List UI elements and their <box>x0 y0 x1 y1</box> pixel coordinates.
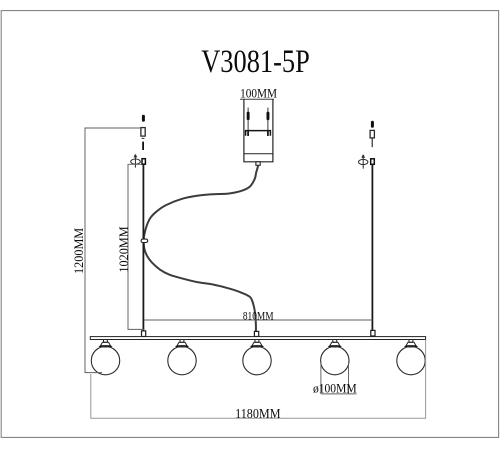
dimension 1180MM lines <box>91 340 426 419</box>
svg-text:1200MM: 1200MM <box>72 228 86 274</box>
right cord grip <box>371 159 375 165</box>
svg-text:ø100MM: ø100MM <box>313 381 357 395</box>
left cord grip <box>142 159 145 165</box>
dimension 1200MM label <box>72 228 86 274</box>
right hanger socket rect <box>370 130 374 138</box>
canopy screw left tip <box>247 131 249 136</box>
canopy cord nub <box>256 162 260 166</box>
dimension 1200MM line <box>85 128 141 373</box>
svg-text:1020MM: 1020MM <box>117 226 131 272</box>
globe 1 <box>91 340 119 375</box>
canopy screw right body <box>267 112 270 121</box>
dimension 810MM line <box>144 319 372 321</box>
cord clip bead on rod <box>141 239 148 242</box>
canopy plate line <box>244 153 273 155</box>
canopy screw left shaft <box>247 108 249 136</box>
left hanger ceiling stud <box>142 115 145 122</box>
canopy screw right shaft <box>267 108 269 136</box>
right rod foot <box>371 330 375 336</box>
left adjuster screw ellipse <box>131 159 141 164</box>
globe 4 <box>321 340 349 375</box>
svg-text:1180MM: 1180MM <box>235 406 281 421</box>
dimension 810MM label <box>243 309 274 322</box>
canopy screw left body <box>247 112 250 121</box>
svg-text:810MM: 810MM <box>243 309 274 322</box>
svg-text:100MM: 100MM <box>240 86 277 101</box>
dimension diameter 100MM lines <box>321 362 357 394</box>
left suspension rod <box>142 164 144 331</box>
canopy body <box>244 99 273 162</box>
canopy screw right tip <box>267 131 269 136</box>
title V3081-5P <box>201 43 310 79</box>
right adjuster screw ellipse <box>359 159 368 164</box>
globe 5 <box>397 340 425 375</box>
horizontal bar <box>90 337 425 340</box>
globe 2 <box>168 340 196 375</box>
dimension 1180MM label <box>235 406 281 421</box>
globe 3 <box>243 340 271 375</box>
left adjuster pin <box>134 154 137 167</box>
left hanger tick <box>142 137 145 139</box>
left rod foot <box>142 331 146 337</box>
dimension 1020MM label <box>117 226 131 272</box>
right hanger ceiling stud <box>371 121 374 128</box>
dimension 1020MM line <box>128 164 145 329</box>
dimension 100MM line <box>240 98 274 100</box>
left hanger wire dash <box>142 142 144 150</box>
power cord S-curve <box>144 166 259 332</box>
svg-text:V3081-5P: V3081-5P <box>201 43 310 79</box>
right hanger wire line <box>371 138 373 147</box>
dimension diameter 100MM label <box>313 381 357 395</box>
right suspension rod <box>371 164 373 330</box>
cord end fixture on bar <box>254 331 258 336</box>
dimension 100MM label <box>240 86 277 101</box>
left hanger socket rect <box>141 128 145 137</box>
canopy mounting strap <box>246 131 271 136</box>
right adjuster pin <box>362 155 365 169</box>
